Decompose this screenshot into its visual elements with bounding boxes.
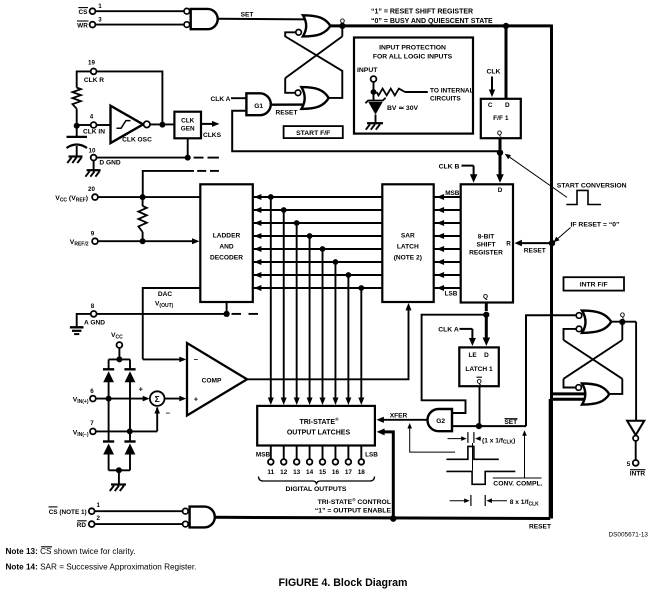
svg-text:RESET: RESET <box>529 524 551 531</box>
svg-text:SAR: SAR <box>401 233 415 240</box>
svg-text:DS005671-13: DS005671-13 <box>609 531 649 538</box>
svg-text:3: 3 <box>98 16 102 23</box>
svg-text:LSB: LSB <box>445 291 458 298</box>
svg-text:20: 20 <box>88 186 95 193</box>
svg-text:Note 14: SAR = Successive Appr: Note 14: SAR = Successive Approximation … <box>6 563 197 572</box>
svg-text:D: D <box>484 352 489 359</box>
svg-text:1: 1 <box>98 3 102 10</box>
svg-text:LATCH 1: LATCH 1 <box>465 366 493 373</box>
svg-text:14: 14 <box>306 469 314 476</box>
svg-text:4: 4 <box>90 114 94 121</box>
svg-text:LE: LE <box>469 352 478 359</box>
svg-text:START CONVERSION: START CONVERSION <box>557 183 627 190</box>
svg-text:INTR: INTR <box>630 471 646 478</box>
svg-text:COMP: COMP <box>202 377 222 384</box>
svg-text:Q: Q <box>340 18 345 25</box>
svg-text:XFER: XFER <box>390 413 408 420</box>
svg-text:CIRCUITS: CIRCUITS <box>430 96 461 103</box>
svg-text:CLK: CLK <box>181 117 195 124</box>
svg-text:5: 5 <box>627 461 631 468</box>
svg-text:16: 16 <box>332 469 340 476</box>
svg-text:Σ: Σ <box>155 394 160 404</box>
svg-text:13: 13 <box>293 469 301 476</box>
svg-text:“1” = RESET SHIFT REGISTER: “1” = RESET SHIFT REGISTER <box>371 9 473 16</box>
svg-text:6: 6 <box>90 388 94 395</box>
svg-text:MSB: MSB <box>256 452 271 459</box>
svg-text:IF RESET = “0”: IF RESET = “0” <box>571 221 620 228</box>
svg-text:12: 12 <box>280 469 288 476</box>
svg-text:Q: Q <box>497 130 502 137</box>
svg-text:18: 18 <box>358 469 366 476</box>
svg-text:CLK R: CLK R <box>84 77 104 84</box>
svg-text:+: + <box>194 394 199 403</box>
svg-text:10: 10 <box>89 148 96 155</box>
svg-text:SET: SET <box>504 419 517 426</box>
svg-text:START F/F: START F/F <box>296 130 330 137</box>
svg-text:F/F 1: F/F 1 <box>493 115 509 122</box>
svg-text:11: 11 <box>267 469 274 476</box>
svg-text:D: D <box>498 187 503 194</box>
svg-text:A GND: A GND <box>84 319 105 326</box>
svg-text:INPUT: INPUT <box>357 67 378 74</box>
svg-text:9: 9 <box>91 230 95 237</box>
svg-text:G2: G2 <box>436 418 445 425</box>
svg-text:CLK B: CLK B <box>439 163 460 170</box>
svg-text:Q: Q <box>483 294 488 301</box>
svg-text:D: D <box>505 102 510 109</box>
svg-text:Q: Q <box>477 379 482 386</box>
svg-text:MSB: MSB <box>445 190 460 197</box>
svg-text:CLK: CLK <box>487 68 501 75</box>
svg-text:WR: WR <box>77 23 88 30</box>
svg-text:DECODER: DECODER <box>210 255 243 262</box>
svg-text:C: C <box>488 102 493 109</box>
svg-text:RESET: RESET <box>524 248 546 255</box>
svg-text:−: − <box>194 355 199 364</box>
svg-text:Q: Q <box>620 312 625 319</box>
svg-text:GEN: GEN <box>181 126 195 133</box>
svg-text:SHIFT: SHIFT <box>476 241 495 248</box>
svg-text:17: 17 <box>345 469 353 476</box>
svg-text:CLK A: CLK A <box>438 326 459 333</box>
svg-text:SET: SET <box>241 12 254 19</box>
svg-text:CLK IN: CLK IN <box>83 129 105 136</box>
svg-text:2: 2 <box>96 515 100 522</box>
svg-text:CLK A: CLK A <box>211 96 231 103</box>
svg-text:INTR F/F: INTR F/F <box>580 282 608 289</box>
svg-text:INPUT PROTECTION: INPUT PROTECTION <box>379 44 446 51</box>
svg-text:CLK OSC: CLK OSC <box>122 137 152 144</box>
svg-text:CLKS: CLKS <box>203 132 222 139</box>
svg-text:FOR ALL LOGIC INPUTS: FOR ALL LOGIC INPUTS <box>373 54 453 61</box>
svg-text:CS (NOTE 1): CS (NOTE 1) <box>49 509 87 516</box>
svg-text:RESET: RESET <box>276 110 298 117</box>
svg-text:8: 8 <box>91 303 95 310</box>
svg-text:DAC: DAC <box>158 291 173 298</box>
svg-text:“0” = BUSY AND QUIESCENT STATE: “0” = BUSY AND QUIESCENT STATE <box>371 18 493 25</box>
svg-text:DIGITAL OUTPUTS: DIGITAL OUTPUTS <box>286 486 347 493</box>
svg-text:REGISTER: REGISTER <box>469 249 503 256</box>
svg-text:OUTPUT LATCHES: OUTPUT LATCHES <box>287 429 351 436</box>
svg-text:“1” = OUTPUT ENABLE: “1” = OUTPUT ENABLE <box>315 508 392 515</box>
svg-text:Note 13: CS shown twice for cl: Note 13: CS shown twice for clarity. <box>6 547 136 556</box>
svg-text:BV ≃ 30V: BV ≃ 30V <box>387 105 418 112</box>
svg-text:FIGURE 4. Block Diagram: FIGURE 4. Block Diagram <box>279 577 408 589</box>
svg-text:G1: G1 <box>254 103 263 110</box>
svg-text:(NOTE 2): (NOTE 2) <box>394 255 422 262</box>
svg-text:R: R <box>506 241 511 248</box>
svg-text:TO INTERNAL: TO INTERNAL <box>430 88 474 95</box>
svg-text:15: 15 <box>319 469 327 476</box>
svg-text:LADDER: LADDER <box>213 233 241 240</box>
svg-text:8-BIT: 8-BIT <box>478 233 494 240</box>
svg-text:D GND: D GND <box>99 159 120 166</box>
svg-text:LSB: LSB <box>365 452 378 459</box>
svg-text:19: 19 <box>88 59 95 66</box>
svg-text:AND: AND <box>219 244 234 251</box>
svg-text:CS: CS <box>79 9 89 16</box>
svg-text:CONV. COMPL.: CONV. COMPL. <box>493 480 542 487</box>
svg-text:7: 7 <box>90 420 94 427</box>
svg-text:LATCH: LATCH <box>397 244 419 251</box>
svg-text:−: − <box>166 409 171 418</box>
svg-text:RD: RD <box>77 522 87 529</box>
svg-text:+: + <box>139 385 144 394</box>
svg-text:1: 1 <box>96 502 100 509</box>
